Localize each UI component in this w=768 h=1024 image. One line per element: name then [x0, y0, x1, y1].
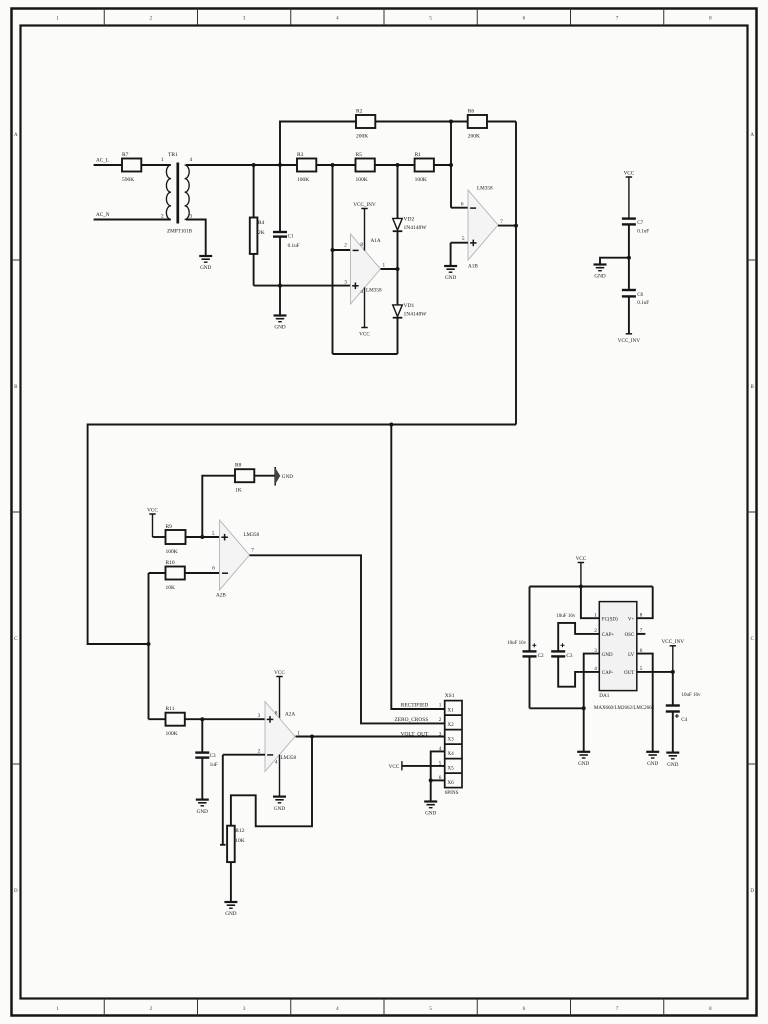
svg-text:6: 6	[212, 566, 215, 572]
ground at LV pin	[646, 751, 659, 753]
svg-text:C4: C4	[681, 717, 687, 723]
svg-text:4: 4	[190, 157, 193, 163]
junction R2/R6/A1B-minus node	[449, 120, 453, 124]
wire A1B output vertical long	[515, 122, 517, 425]
power VCC left of R9	[147, 507, 158, 537]
transformer TR1 ZMPT101B	[161, 152, 193, 234]
svg-text:A: A	[14, 133, 18, 138]
wire AC_L to R7	[94, 164, 122, 166]
svg-text:0.1uF: 0.1uF	[637, 300, 649, 306]
wire A2A feedback staircase	[231, 737, 312, 827]
wire left vertical R10/R11 feed	[148, 573, 150, 719]
wire end tick	[220, 844, 226, 846]
connector XS1 6PINS	[439, 693, 462, 796]
resistor R12	[227, 826, 235, 862]
svg-text:3: 3	[258, 713, 261, 719]
wire VD2 cathode to output node	[397, 231, 399, 269]
svg-text:200K: 200K	[356, 134, 368, 140]
svg-text:1K: 1K	[235, 488, 242, 494]
wire A1B output down-left long run	[88, 425, 516, 645]
wire R3 to R5	[316, 164, 355, 166]
ground flag right of R8	[275, 467, 293, 486]
svg-text:A1B: A1B	[468, 264, 478, 270]
wire AC_N to TR1 pin 2	[94, 219, 171, 221]
power VCC_INV at OUT	[662, 639, 685, 672]
svg-text:ZMPT101B: ZMPT101B	[167, 229, 193, 235]
wire top rail	[530, 586, 653, 588]
diode VD1 1N4148W	[393, 305, 403, 317]
svg-text:DA1: DA1	[599, 693, 609, 699]
wire A1B plus input	[451, 242, 468, 244]
svg-text:100K: 100K	[415, 177, 427, 183]
wire rail down to C2	[529, 587, 531, 652]
svg-text:OSC: OSC	[625, 633, 635, 638]
junction R1 wire end	[449, 163, 453, 167]
svg-text:8: 8	[275, 711, 278, 717]
junction R8/R9 node	[200, 535, 204, 539]
svg-text:ZERO_CROSS: ZERO_CROSS	[394, 717, 428, 723]
wire node A vertical	[332, 165, 334, 354]
wire A1A feedback bottom	[333, 353, 398, 355]
wire VD1 cathode to feedback	[397, 318, 399, 354]
junction C1 / plus-input node	[278, 284, 282, 288]
svg-text:8: 8	[360, 242, 363, 248]
svg-text:3: 3	[344, 279, 347, 285]
wire R6 to output vertical	[487, 121, 516, 123]
wire LV pin6 to ground	[637, 654, 653, 752]
wire rail to FC pin1	[581, 587, 599, 619]
svg-text:R8: R8	[235, 463, 242, 469]
svg-text:V+: V+	[628, 617, 635, 622]
power VCC_INV above A1A	[353, 202, 376, 251]
svg-text:3: 3	[439, 731, 442, 737]
svg-text:RECTIFIED: RECTIFIED	[401, 702, 429, 708]
svg-text:100K: 100K	[166, 731, 178, 737]
power VCC below A1A	[359, 287, 370, 337]
wire GND pin3 to ground	[584, 654, 600, 752]
svg-text:2: 2	[161, 214, 164, 220]
wire junction to ground	[600, 258, 629, 265]
junction C3 tap	[200, 717, 204, 721]
power VCC at connector pin5	[389, 761, 445, 770]
svg-text:10uF 16v: 10uF 16v	[556, 614, 576, 619]
svg-text:4: 4	[594, 666, 597, 672]
IC DA1 MAX660	[594, 602, 655, 711]
wire connector pin6	[431, 779, 445, 781]
svg-text:GND: GND	[197, 809, 208, 815]
wire VCC to R9	[153, 536, 166, 538]
svg-text:R2: R2	[356, 109, 363, 115]
wire vertical R1 node to A1B minus	[450, 122, 452, 208]
svg-text:6PINS: 6PINS	[445, 790, 459, 796]
svg-text:GND: GND	[578, 761, 589, 767]
svg-text:1: 1	[161, 157, 164, 163]
svg-text:VCC: VCC	[576, 556, 587, 562]
svg-text:R11: R11	[166, 706, 175, 712]
svg-text:LM358: LM358	[366, 288, 382, 294]
svg-text:C2: C2	[538, 653, 544, 659]
junction OUT node	[671, 670, 675, 674]
wire junction to C6	[628, 258, 630, 290]
capacitor C7 0.1uF	[622, 219, 649, 235]
svg-text:VD2: VD2	[404, 217, 415, 223]
svg-text:7: 7	[500, 219, 503, 225]
svg-text:1uF: 1uF	[210, 762, 218, 768]
junction C1/R2 tap	[278, 163, 282, 167]
svg-text:4: 4	[275, 759, 278, 765]
wire bottom rail	[530, 707, 584, 709]
svg-text:R3: R3	[297, 152, 304, 158]
svg-text:1: 1	[439, 702, 442, 708]
wire R1 to A1B branch	[434, 164, 451, 166]
svg-text:2: 2	[594, 628, 597, 634]
svg-text:X3: X3	[447, 737, 454, 743]
wire TR1 pin 4 main node	[186, 164, 297, 166]
svg-text:GND: GND	[667, 762, 678, 768]
wire R5 to R1	[375, 164, 415, 166]
svg-text:OUT: OUT	[624, 671, 634, 676]
svg-text:1N4148W: 1N4148W	[404, 312, 428, 318]
wire A2A minus input	[223, 754, 265, 756]
resistor R5	[356, 159, 375, 172]
svg-text:GND: GND	[445, 275, 456, 281]
junction R4 tap	[252, 163, 256, 167]
ground at decoupling midpoint	[594, 263, 607, 265]
svg-text:A2A: A2A	[285, 712, 295, 718]
junction rectified tap	[389, 423, 393, 427]
svg-text:GND: GND	[647, 761, 658, 767]
svg-text:X6: X6	[447, 780, 454, 786]
ground below DA1	[577, 751, 590, 753]
svg-text:2: 2	[344, 243, 347, 249]
svg-text:R9: R9	[166, 524, 173, 530]
wire rectified vertical to connector	[391, 425, 444, 710]
wire to A1A minus input	[333, 249, 351, 251]
ground below A2A	[273, 795, 286, 797]
wire CAP+ pin2 staircase to C3	[558, 623, 599, 652]
resistor R6	[468, 115, 487, 128]
svg-text:R10: R10	[166, 560, 175, 566]
svg-text:AC_N: AC_N	[96, 212, 110, 218]
wire C2 to bottom rail	[529, 656, 531, 708]
resistor R9	[166, 530, 186, 544]
ground below connector	[424, 800, 437, 802]
svg-text:0.1uF: 0.1uF	[637, 229, 649, 235]
wire C7 to mid junction	[628, 224, 630, 257]
svg-text:GND: GND	[282, 474, 293, 480]
svg-text:R5: R5	[356, 152, 363, 158]
svg-text:GND: GND	[274, 325, 285, 331]
junction node A tap	[331, 163, 335, 167]
wire A1A output	[381, 268, 398, 270]
junction left feed	[147, 642, 151, 646]
op-amp A1B LM358	[461, 185, 503, 269]
svg-text:GND: GND	[274, 806, 285, 812]
wire OUT pin5	[637, 671, 673, 673]
svg-text:LM358: LM358	[281, 755, 297, 761]
svg-text:8: 8	[640, 612, 643, 618]
svg-text:D: D	[750, 889, 754, 894]
wire C1 node up to R2	[280, 122, 356, 166]
svg-text:590K: 590K	[122, 177, 134, 183]
svg-text:VCC_INV: VCC_INV	[618, 338, 641, 344]
capacitor C3 1uF	[195, 719, 217, 799]
svg-text:10uF 16v: 10uF 16v	[682, 693, 702, 698]
ground below TR1	[199, 255, 212, 257]
svg-text:XS1: XS1	[445, 693, 455, 699]
ground below C1	[274, 314, 287, 316]
svg-text:R7: R7	[122, 152, 129, 158]
wire output node to VD1	[397, 269, 399, 305]
svg-text:VD1: VD1	[404, 303, 415, 309]
capacitor C4 10uF 16v	[666, 672, 701, 753]
capacitor C2 10uF 16v	[507, 641, 544, 659]
wire R12 to ground	[230, 862, 232, 902]
svg-text:A2B: A2B	[216, 592, 226, 598]
resistor R1	[415, 159, 434, 172]
wire connector pin4/pin6 ground link	[431, 751, 445, 801]
svg-text:LM358: LM358	[244, 532, 260, 538]
resistor R4	[250, 165, 265, 286]
svg-text:CAP-: CAP-	[602, 671, 614, 676]
svg-text:A1A: A1A	[371, 238, 381, 244]
svg-text:5: 5	[462, 236, 465, 242]
wire rail to V+ pin8	[637, 587, 653, 619]
svg-text:LV: LV	[628, 653, 635, 658]
svg-text:MAX660/LM2662/LMC2662: MAX660/LM2662/LMC2662	[594, 706, 655, 711]
wire R2 to R6 node	[375, 121, 467, 123]
capacitor C1 0.1uF	[273, 165, 300, 286]
junction bottom rail to pin3	[582, 706, 586, 710]
resistor R11	[149, 706, 266, 737]
svg-text:0.1uF: 0.1uF	[288, 243, 300, 249]
svg-text:VCC_INV: VCC_INV	[353, 202, 376, 208]
wire OSC pin7 stub	[637, 633, 646, 635]
svg-text:GND: GND	[225, 911, 236, 917]
svg-text:VCC: VCC	[274, 670, 285, 676]
wire C3 to CAP- pin4 staircase	[558, 656, 599, 686]
svg-text:R4: R4	[258, 220, 265, 226]
svg-text:FC(SD): FC(SD)	[602, 617, 618, 622]
svg-text:4: 4	[360, 289, 363, 295]
op-amp A2A LM358	[258, 702, 301, 772]
svg-text:1: 1	[383, 263, 386, 269]
resistor R3	[297, 159, 316, 172]
svg-text:GND: GND	[200, 265, 211, 271]
wire to A1A plus input	[254, 285, 351, 287]
svg-text:AC_L: AC_L	[96, 157, 109, 163]
svg-text:C7: C7	[637, 220, 643, 226]
wire A2A ground pin	[279, 755, 281, 797]
svg-text:2: 2	[439, 717, 442, 723]
svg-text:GND: GND	[425, 811, 436, 817]
svg-text:CAP+: CAP+	[602, 633, 615, 638]
junction A1B output	[514, 224, 518, 228]
svg-text:VCC: VCC	[147, 507, 158, 513]
resistor R2	[356, 115, 375, 128]
power VCC above DA1	[576, 556, 587, 587]
svg-text:200K: 200K	[468, 134, 480, 140]
junction A1A output node	[396, 267, 400, 271]
svg-text:100K: 100K	[356, 177, 368, 183]
wire A2B output to connector pin2	[250, 555, 445, 723]
resistor R8	[202, 463, 275, 537]
svg-text:VCC_INV: VCC_INV	[662, 639, 685, 645]
svg-text:X1: X1	[447, 708, 454, 714]
wire minus input vertical stub	[222, 755, 224, 845]
capacitor C6 0.1uF	[622, 290, 649, 306]
svg-text:LM358: LM358	[477, 185, 493, 191]
svg-text:A: A	[750, 133, 754, 138]
svg-text:2K: 2K	[258, 230, 265, 236]
power VCC top right	[624, 170, 635, 218]
svg-text:10K: 10K	[235, 838, 245, 844]
svg-text:C3: C3	[566, 653, 572, 659]
svg-text:1: 1	[594, 612, 597, 618]
wire to A1B minus input	[451, 207, 468, 209]
ground at A1B plus input	[444, 265, 457, 267]
wire A2A output to connector pin3	[296, 736, 445, 738]
op-amp A1A LM358	[344, 234, 385, 304]
junction A2A feedback tap	[310, 735, 314, 739]
svg-text:X4: X4	[447, 751, 454, 757]
junction VCC rail	[579, 585, 583, 589]
svg-text:C1: C1	[288, 233, 294, 239]
op-amp A2B LM358	[212, 520, 260, 598]
svg-text:GND: GND	[602, 653, 613, 658]
svg-text:5: 5	[212, 531, 215, 537]
svg-text:C3: C3	[210, 753, 216, 759]
svg-text:2: 2	[258, 748, 261, 754]
diode VD2 1N4148W	[393, 218, 403, 230]
wire C1 to ground	[279, 286, 281, 316]
svg-text:R6: R6	[468, 109, 475, 115]
resistor R10	[149, 560, 220, 591]
svg-text:VCC: VCC	[359, 332, 370, 338]
svg-text:VCC: VCC	[389, 764, 400, 770]
junction pin6 link	[429, 778, 433, 782]
ground below C3	[196, 798, 209, 800]
svg-text:GND: GND	[594, 274, 605, 280]
svg-text:R12: R12	[235, 828, 244, 834]
wire R9 to A2B plus	[186, 536, 220, 538]
svg-text:1N4148W: 1N4148W	[404, 225, 428, 231]
capacitor C3 10uF 16v (charge pump)	[551, 614, 576, 659]
wire C6 to VCC_INV	[628, 296, 630, 333]
resistor R7	[122, 159, 141, 172]
wire TR1 pin 3 to ground	[186, 220, 206, 257]
junction A1A minus input	[331, 248, 335, 252]
svg-text:10uF 16v: 10uF 16v	[507, 641, 527, 646]
svg-text:D: D	[14, 889, 18, 894]
svg-text:100K: 100K	[166, 549, 178, 555]
svg-text:R1: R1	[415, 152, 422, 158]
junction VD2 tap	[396, 163, 400, 167]
svg-text:VCC: VCC	[624, 170, 635, 176]
svg-text:X2: X2	[447, 722, 454, 728]
ground below C4	[666, 751, 679, 753]
svg-text:7: 7	[251, 548, 254, 554]
svg-text:1: 1	[297, 730, 300, 736]
svg-text:VOLT_OUT: VOLT_OUT	[401, 731, 429, 737]
svg-text:X5: X5	[447, 766, 454, 772]
svg-text:10K: 10K	[166, 585, 176, 591]
wire R7 to TR1 pin 1	[141, 164, 170, 166]
power VCC above A2A	[274, 670, 285, 719]
junction decoupling midpoint	[627, 256, 631, 260]
svg-text:C6: C6	[637, 292, 643, 298]
wire A1B output	[498, 225, 516, 227]
svg-text:6: 6	[461, 201, 464, 207]
ground below R12	[224, 901, 237, 903]
svg-text:100K: 100K	[297, 177, 309, 183]
svg-text:TR1: TR1	[168, 152, 178, 158]
wire VD2 anode	[397, 165, 399, 218]
wire A1B plus to ground	[450, 243, 452, 266]
